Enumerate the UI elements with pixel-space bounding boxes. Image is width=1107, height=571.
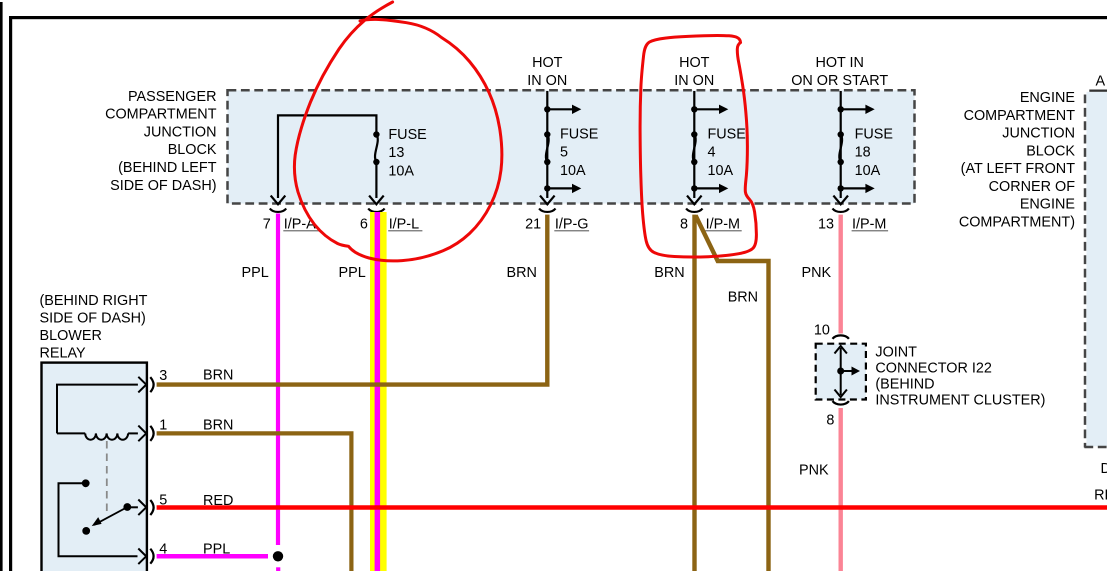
svg-text:(BEHIND RIGHT: (BEHIND RIGHT [40,293,148,309]
label RED (clipped at edge) [1094,488,1107,504]
svg-text:BLOCK: BLOCK [168,142,217,158]
svg-text:SIDE OF DASH): SIDE OF DASH) [110,178,216,194]
joint connector I22 internal arrows [835,346,861,397]
fuse F18 [833,91,874,204]
svg-text:13: 13 [818,216,834,232]
wire BRN pin21 to relay pin3 [157,215,548,385]
annotation red circle 2 (around fuse 4) [640,35,756,257]
I22 pin label 10 [814,323,830,339]
connector cup pin 21 [539,209,555,212]
svg-text:COMPARTMENT: COMPARTMENT [964,108,1076,124]
relay switch common pin5 [123,500,146,516]
blower relay box [42,363,147,571]
svg-text:I/P-L: I/P-L [389,216,419,232]
svg-text:(AT LEFT FRONT: (AT LEFT FRONT [961,161,1076,177]
svg-text:I/P-G: I/P-G [555,216,589,232]
svg-text:IN ON: IN ON [674,73,714,89]
svg-text:13: 13 [388,145,404,161]
svg-text:COMPARTMENT): COMPARTMENT) [959,215,1075,231]
wire label BRN (pin3) [203,367,233,383]
svg-text:JUNCTION: JUNCTION [144,124,217,140]
svg-text:ENGINE: ENGINE [1020,90,1075,106]
fuse F18 label [855,126,893,179]
svg-text:(BEHIND LEFT: (BEHIND LEFT [118,160,217,176]
svg-text:PASSENGER: PASSENGER [128,89,217,105]
svg-text:CONNECTOR I22: CONNECTOR I22 [875,360,991,376]
svg-text:18: 18 [855,145,871,161]
relay actuator dashed link [106,441,108,513]
junction dot PPL [273,551,283,561]
fuse F5 [540,91,581,204]
wire PPL/YEL pin6 vertical [370,212,387,571]
passenger block label [105,89,217,194]
svg-text:3: 3 [159,368,167,384]
relay switch contact to pin4 [59,479,147,564]
wire label BRN (pin1) [203,417,233,433]
svg-text:8: 8 [826,413,834,429]
svg-text:A: A [1096,74,1106,90]
label D (clipped at edge) [1101,461,1107,477]
svg-text:FUSE: FUSE [560,126,598,142]
svg-text:I/P-M: I/P-M [852,216,886,232]
border frame top [9,16,1107,19]
engine compartment junction block box [1084,92,1107,448]
svg-text:(BEHIND: (BEHIND [875,376,934,392]
svg-text:SIDE OF DASH): SIDE OF DASH) [40,310,146,326]
relay pin4 connector arc [150,541,167,563]
svg-text:BRN: BRN [654,265,684,281]
label HOT IN ON (fuse 5) [527,55,567,89]
joint connector I22 cup bottom [833,401,849,404]
fuse F5 label [560,126,598,179]
wire color label BRN (pin8) [654,265,684,281]
svg-text:8: 8 [680,216,688,232]
svg-text:10A: 10A [855,163,881,179]
svg-text:10: 10 [814,323,830,339]
relay pin5 connector arc [150,493,167,515]
svg-text:10A: 10A [388,164,414,180]
relay pin3 connector arc [150,368,167,392]
wire color label PNK (pin13) [802,265,832,281]
svg-text:10A: 10A [708,163,734,179]
svg-text:RED: RED [1094,488,1107,504]
wire PPL relay pin4 [157,554,268,559]
wire color label PPL (pin7) [242,265,269,281]
fuse F13 [369,131,384,204]
svg-text:BLOWER: BLOWER [40,328,102,344]
fuse F4 label [708,126,746,179]
wire color label PPL (pin6) [339,265,366,281]
pin label 6 I/P-L [360,216,423,232]
svg-text:BRN: BRN [507,265,537,281]
wire PNK pin13 to I22 [839,215,843,334]
svg-text:PPL: PPL [339,265,366,281]
fuse F13 branch wire [271,115,377,204]
wire BRN pin8 vertical [692,215,696,571]
wire color label PNK (below I22) [799,463,829,479]
svg-text:1: 1 [159,418,167,434]
svg-text:PNK: PNK [799,463,829,479]
svg-text:FUSE: FUSE [388,127,426,143]
connector cup pin 7 [270,209,286,212]
svg-text:BRN: BRN [728,290,758,306]
svg-text:COMPARTMENT: COMPARTMENT [105,107,217,123]
svg-text:DK: DK [1101,461,1107,477]
svg-text:RELAY: RELAY [40,345,87,361]
blower relay label [40,293,148,362]
svg-text:INSTRUMENT CLUSTER): INSTRUMENT CLUSTER) [875,392,1045,408]
annotation red circle 1 (around fuse 13) [294,2,501,261]
svg-text:PNK: PNK [802,265,832,281]
fuse F4 [687,91,728,204]
connector cup pin 6 [368,209,384,212]
wire PPL pin7 vertical [276,214,280,571]
wire color label BRN (diagonal) [728,290,758,306]
joint connector I22 cup top [833,335,849,338]
border outer bar [0,2,3,571]
I22 pin label 8 [826,413,834,429]
wire label RED (pin5) [203,493,233,509]
relay armature arrow [82,509,124,535]
svg-text:HOT: HOT [679,55,710,71]
svg-text:CORNER OF: CORNER OF [989,179,1076,195]
relay coil [57,426,146,442]
label HOT IN ON (fuse 4) [674,55,714,89]
connector cup pin 13 [833,209,849,212]
pin label 21 I/P-G [525,216,589,232]
svg-text:IN ON: IN ON [527,73,567,89]
svg-text:6: 6 [360,216,368,232]
svg-text:PPL: PPL [242,265,269,281]
svg-text:FUSE: FUSE [855,126,893,142]
svg-text:BRN: BRN [203,367,233,383]
svg-text:HOT IN: HOT IN [815,55,864,71]
pin label 13 I/P-M [818,216,888,232]
wire BRN pin8 diagonal branch [696,216,769,571]
fuse F13 label [388,127,426,180]
joint connector I22 label [875,344,1045,408]
connector cup pin 8 [686,209,702,212]
svg-text:ON OR START: ON OR START [791,73,888,89]
svg-text:BRN: BRN [203,417,233,433]
pin label 7 I/P-A [263,216,319,232]
svg-text:I/P-M: I/P-M [706,216,740,232]
wire PNK below I22 [839,408,843,571]
label HOT IN ON OR START (fuse 18) [791,55,888,89]
svg-text:BLOCK: BLOCK [1026,144,1075,160]
relay pin3 internal wire and arrow [57,377,146,434]
wire RED relay pin5 [157,505,1107,510]
svg-text:7: 7 [263,216,271,232]
svg-text:21: 21 [525,216,541,232]
svg-text:JUNCTION: JUNCTION [1002,126,1075,142]
wire color label BRN (pin21) [507,265,537,281]
relay pin1 connector arc [150,418,167,441]
svg-text:HOT: HOT [532,55,563,71]
svg-text:5: 5 [560,145,568,161]
joint connector I22 box [816,344,866,400]
svg-text:ENGINE: ENGINE [1020,197,1075,213]
wire BRN relay pin1 [157,433,352,571]
svg-text:4: 4 [708,145,716,161]
svg-text:10A: 10A [560,163,586,179]
wire label PPL (pin4) [203,541,230,557]
svg-text:FUSE: FUSE [708,126,746,142]
pin label 8 I/P-M [680,216,742,232]
svg-text:JOINT: JOINT [875,344,917,360]
border frame left [9,16,12,571]
engine compartment junction block label [959,90,1076,230]
engine block connector label A [1089,74,1107,92]
passenger compartment junction block box [228,90,915,203]
